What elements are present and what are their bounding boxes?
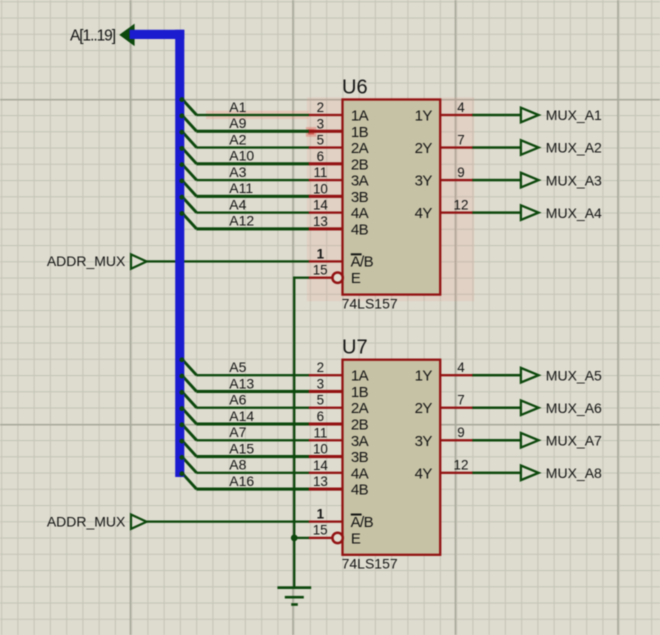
op chip U6 body xyxy=(343,100,441,295)
bus entry A11 xyxy=(183,181,197,196)
svg-text:4B: 4B xyxy=(351,482,369,499)
bus A[1..19] vertical xyxy=(175,30,184,477)
wire A1 xyxy=(196,114,309,116)
svg-text:4Y: 4Y xyxy=(415,205,433,222)
pin name A/B (U6) xyxy=(351,253,374,270)
wire A3 xyxy=(196,179,309,181)
wire A9 xyxy=(196,130,309,133)
svg-text:1A: 1A xyxy=(351,368,369,385)
pin 12 stub (U7 4Y) xyxy=(440,472,473,474)
wire A8 xyxy=(196,472,309,474)
svg-text:7: 7 xyxy=(457,132,464,147)
svg-text:15: 15 xyxy=(313,523,328,538)
svg-text:1B: 1B xyxy=(351,384,369,401)
junction dot A16 on bus xyxy=(179,471,184,476)
selection highlight U6 xyxy=(307,97,474,301)
svg-text:A8: A8 xyxy=(229,457,246,473)
wire E vertical xyxy=(293,277,295,539)
wire MUX_A4 xyxy=(472,211,522,214)
svg-text:ADDR_MUX: ADDR_MUX xyxy=(47,513,126,529)
pin 6 stub (U6 2B) xyxy=(309,162,344,165)
wire A11 xyxy=(196,195,309,198)
terminal MUX_A5 xyxy=(521,368,539,383)
bus entry A16 xyxy=(183,474,197,489)
svg-text:2A: 2A xyxy=(351,140,369,157)
junction dot A15 on bus xyxy=(179,439,184,444)
wire ADDR_MUX to pin 1 (U6) xyxy=(146,260,309,262)
terminal ADDR_MUX (U7) xyxy=(131,515,147,529)
ground xyxy=(277,586,311,606)
bus A[1..19] horizontal xyxy=(130,30,185,39)
svg-text:MUX_A8: MUX_A8 xyxy=(546,465,602,481)
svg-text:3B: 3B xyxy=(351,449,369,466)
svg-text:14: 14 xyxy=(313,198,328,213)
svg-text:13: 13 xyxy=(313,474,328,489)
pin 2 stub (U7 1A) xyxy=(309,374,344,376)
junction dot A3 on bus xyxy=(179,162,184,167)
svg-text:A15: A15 xyxy=(229,440,254,456)
pin 7 stub (U6 2Y) xyxy=(440,146,473,148)
wire E (U6 pin15 horizontal) xyxy=(293,277,309,279)
wire to ground xyxy=(293,538,295,588)
pin 3 stub (U6 1B) xyxy=(309,130,344,133)
terminal ADDR_MUX (U6) xyxy=(131,254,147,268)
svg-text:E: E xyxy=(351,530,361,547)
terminal MUX_A1 xyxy=(521,108,539,123)
pin 1 stub (U6 A/B) xyxy=(309,260,344,262)
svg-text:E: E xyxy=(351,270,361,287)
bus entry A4 xyxy=(183,197,197,212)
svg-text:A10: A10 xyxy=(229,148,254,164)
svg-text:3: 3 xyxy=(317,376,324,391)
bus entry A10 xyxy=(183,148,197,163)
svg-text:2B: 2B xyxy=(351,156,369,173)
terminal MUX_A6 xyxy=(521,400,539,415)
wire MUX_A8 xyxy=(472,472,522,475)
svg-text:7: 7 xyxy=(457,393,464,408)
svg-text:1: 1 xyxy=(317,507,325,522)
junction dot A12 on bus xyxy=(179,211,184,216)
svg-text:2: 2 xyxy=(317,100,324,115)
wire MUX_A3 xyxy=(472,179,522,182)
pin 11 stub (U7 3A) xyxy=(309,439,344,441)
svg-text:A[1..19]: A[1..19] xyxy=(70,27,116,44)
svg-text:4: 4 xyxy=(457,100,465,115)
svg-text:1Y: 1Y xyxy=(415,368,433,385)
svg-text:4: 4 xyxy=(457,360,465,375)
pin name A/B (U7) xyxy=(351,514,374,531)
svg-text:MUX_A2: MUX_A2 xyxy=(546,140,602,156)
wire MUX_A1 xyxy=(472,114,522,117)
svg-text:4Y: 4Y xyxy=(415,465,433,482)
svg-text:MUX_A7: MUX_A7 xyxy=(546,432,602,448)
svg-text:3Y: 3Y xyxy=(415,173,433,190)
svg-text:4A: 4A xyxy=(351,205,369,222)
junction dot A1 on bus xyxy=(179,97,184,102)
bus entry A6 xyxy=(183,392,197,407)
pin 4 stub (U7 1Y) xyxy=(440,374,473,376)
pin 7 stub (U7 2Y) xyxy=(440,407,473,409)
wire MUX_A6 xyxy=(472,406,522,409)
svg-text:9: 9 xyxy=(457,425,464,440)
svg-text:A11: A11 xyxy=(229,180,253,196)
svg-text:2Y: 2Y xyxy=(415,140,433,157)
svg-text:A13: A13 xyxy=(229,375,254,391)
pin 1 stub (U7 A/B) xyxy=(309,520,344,522)
svg-text:15: 15 xyxy=(313,262,328,277)
junction dot A2 on bus xyxy=(179,130,184,135)
junction dot A4 on bus xyxy=(179,195,184,200)
svg-text:11: 11 xyxy=(313,425,327,440)
svg-text:11: 11 xyxy=(313,165,327,180)
terminal MUX_A2 xyxy=(521,140,539,155)
pin 10 stub (U6 3B) xyxy=(309,195,344,198)
junction dot A13 on bus xyxy=(179,374,184,379)
junction dot A9 on bus xyxy=(179,113,184,118)
svg-text:9: 9 xyxy=(457,165,464,180)
svg-text:74LS157: 74LS157 xyxy=(342,295,398,311)
pin 13 stub (U6 4B) xyxy=(309,227,344,230)
wire MUX_A2 xyxy=(472,146,522,149)
wire E (U7 pin15 horizontal) xyxy=(293,537,309,539)
svg-text:A2: A2 xyxy=(229,131,246,147)
highlight wire A1 xyxy=(206,111,309,119)
svg-text:3A: 3A xyxy=(351,173,369,190)
wire A5 xyxy=(196,374,309,376)
svg-text:2Y: 2Y xyxy=(415,400,433,417)
wire A14 xyxy=(196,422,309,425)
bus entry A1 xyxy=(183,100,197,115)
svg-text:A16: A16 xyxy=(229,473,254,489)
svg-text:6: 6 xyxy=(317,149,324,164)
terminal MUX_A7 xyxy=(521,433,539,448)
pin 3 stub (U7 1B) xyxy=(309,390,344,393)
junction dot A5 on bus xyxy=(179,357,184,362)
bus entry A14 xyxy=(183,409,197,424)
svg-text:3B: 3B xyxy=(351,189,369,206)
svg-text:5: 5 xyxy=(317,393,324,408)
bus entry A2 xyxy=(183,132,197,147)
svg-text:2: 2 xyxy=(317,360,324,375)
bus entry A12 xyxy=(183,213,197,228)
svg-text:6: 6 xyxy=(317,409,324,424)
svg-text:74LS157: 74LS157 xyxy=(342,556,398,572)
svg-text:12: 12 xyxy=(454,458,469,473)
pin 6 stub (U7 2B) xyxy=(309,422,344,425)
svg-text:3: 3 xyxy=(317,116,324,131)
svg-text:14: 14 xyxy=(313,458,328,473)
svg-text:A12: A12 xyxy=(229,213,254,229)
svg-text:MUX_A4: MUX_A4 xyxy=(546,205,602,221)
pin 13 stub (U7 4B) xyxy=(309,488,344,491)
svg-text:A6: A6 xyxy=(229,392,246,408)
pin 15 stub (U6 E) xyxy=(309,273,343,283)
pin 5 stub (U7 2A) xyxy=(309,407,344,409)
junction dot A7 on bus xyxy=(179,422,184,427)
terminal MUX_A3 xyxy=(521,173,539,188)
svg-text:1: 1 xyxy=(317,246,325,261)
pin 5 stub (U6 2A) xyxy=(309,146,344,148)
pin 11 stub (U6 3A) xyxy=(309,179,344,181)
wire A15 xyxy=(196,455,309,458)
svg-text:MUX_A1: MUX_A1 xyxy=(546,107,602,123)
svg-text:U7: U7 xyxy=(342,337,368,359)
svg-text:1B: 1B xyxy=(351,124,369,141)
svg-text:U6: U6 xyxy=(342,76,368,98)
pin 15 stub (U7 E) xyxy=(309,533,343,543)
svg-text:10: 10 xyxy=(313,442,328,457)
svg-text:2B: 2B xyxy=(351,417,369,434)
junction dot E xyxy=(291,535,298,542)
svg-text:3Y: 3Y xyxy=(415,433,433,450)
pin 14 stub (U7 4A) xyxy=(309,472,344,474)
svg-text:A3: A3 xyxy=(229,164,246,180)
svg-text:A/B: A/B xyxy=(351,254,374,271)
junction dot A8 on bus xyxy=(179,455,184,460)
bus entry A8 xyxy=(183,457,197,472)
svg-text:3A: 3A xyxy=(351,433,369,450)
bus entry A13 xyxy=(183,376,197,391)
bus entry A7 xyxy=(183,425,197,440)
svg-text:MUX_A5: MUX_A5 xyxy=(546,367,602,383)
terminal MUX_A4 xyxy=(521,205,539,220)
svg-text:5: 5 xyxy=(317,133,324,148)
junction dot A6 on bus xyxy=(179,390,184,395)
wire A6 xyxy=(196,407,309,409)
svg-text:MUX_A3: MUX_A3 xyxy=(546,172,602,188)
pin 14 stub (U6 4A) xyxy=(309,211,344,213)
junction dot A11 on bus xyxy=(179,179,184,184)
svg-text:10: 10 xyxy=(313,181,328,196)
svg-text:MUX_A6: MUX_A6 xyxy=(546,400,602,416)
svg-text:ADDR_MUX: ADDR_MUX xyxy=(47,253,126,269)
wire MUX_A5 xyxy=(472,374,522,377)
op chip U7 body xyxy=(343,360,441,555)
svg-text:A14: A14 xyxy=(229,408,254,424)
bus terminal arrow xyxy=(121,26,133,44)
wire ADDR_MUX to pin 1 (U7) xyxy=(146,520,309,522)
svg-text:2A: 2A xyxy=(351,400,369,417)
wire A7 xyxy=(196,439,309,441)
pin 12 stub (U6 4Y) xyxy=(440,211,473,213)
wire A10 xyxy=(196,162,309,165)
bus entry A15 xyxy=(183,441,197,456)
wire A16 xyxy=(196,488,309,491)
pin 9 stub (U7 3Y) xyxy=(440,439,473,441)
wire A4 xyxy=(196,211,309,213)
pin 4 stub (U6 1Y) xyxy=(440,114,473,116)
drag marker on pin 3 junction xyxy=(306,127,316,137)
junction dot A10 on bus xyxy=(179,146,184,151)
pin 2 stub (U6 1A) xyxy=(309,114,344,116)
svg-text:4A: 4A xyxy=(351,465,369,482)
svg-text:1Y: 1Y xyxy=(415,108,433,125)
junction dot A14 on bus xyxy=(179,406,184,411)
svg-text:A7: A7 xyxy=(229,424,246,440)
svg-text:4B: 4B xyxy=(351,221,369,238)
wire A2 xyxy=(196,146,309,148)
svg-text:A4: A4 xyxy=(229,196,246,212)
wire MUX_A7 xyxy=(472,439,522,442)
bus entry A9 xyxy=(183,116,197,131)
pin 10 stub (U7 3B) xyxy=(309,455,344,458)
wire A13 xyxy=(196,390,309,393)
svg-text:12: 12 xyxy=(454,197,469,212)
svg-text:13: 13 xyxy=(313,214,328,229)
bus entry A3 xyxy=(183,165,197,180)
bus entry A5 xyxy=(183,360,197,375)
pin 9 stub (U6 3Y) xyxy=(440,179,473,181)
terminal MUX_A8 xyxy=(521,466,539,481)
svg-text:1A: 1A xyxy=(351,108,369,125)
svg-text:A5: A5 xyxy=(229,359,246,375)
svg-text:A/B: A/B xyxy=(351,514,374,531)
svg-text:A1: A1 xyxy=(229,99,246,115)
svg-text:A9: A9 xyxy=(229,115,246,131)
wire A12 xyxy=(196,227,309,230)
